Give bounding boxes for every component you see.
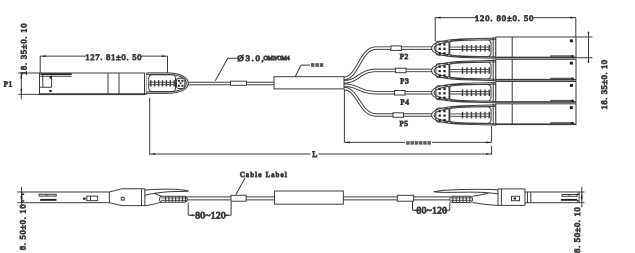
connector P2 (432, 37, 576, 58)
dimension 8.50 right (573, 187, 585, 253)
svg-text:80~120: 80~120 (195, 212, 226, 222)
cable marker P3 (396, 68, 407, 73)
cable label marker right (397, 195, 413, 201)
crimp ribs (149, 82, 176, 85)
wire fanout P2 (344, 48, 434, 78)
dimension 120.80 (435, 14, 576, 42)
bottom-left connector body (22, 192, 124, 203)
svg-text:8. 50±0. 10: 8. 50±0. 10 (19, 204, 28, 250)
svg-text:P2: P2 (400, 52, 409, 61)
svg-text:127. 81±0. 50: 127. 81±0. 50 (85, 53, 142, 62)
boot clover square (177, 78, 185, 88)
dimension 8.50 left (17, 187, 28, 250)
dimension 127.81 (40, 53, 167, 73)
dimension 18.35 right (576, 32, 609, 110)
cable label marker left (231, 195, 246, 201)
bottom-right connector pull tab (434, 189, 499, 194)
connector P4 (432, 82, 576, 103)
bottom-left connector pull tab (145, 189, 189, 195)
bottom-right connector crimp and funnel (450, 190, 498, 205)
cable label box (275, 191, 344, 204)
svg-text:L: L (312, 150, 317, 159)
bottom-left connector wide section (109, 189, 144, 206)
dimension 80~120 right (413, 201, 450, 216)
dimension branch length (CJK) (344, 89, 491, 145)
wire fanout P4 (344, 85, 434, 93)
svg-text:P5: P5 (400, 119, 409, 128)
svg-text:P3: P3 (400, 76, 409, 85)
cable marker P5 (393, 113, 404, 118)
boot crimp rect (149, 75, 176, 92)
connector P1 boot (146, 73, 188, 94)
connector P5 (432, 104, 576, 125)
dimension 80~120 left (188, 202, 231, 222)
svg-text:Ø3.0,: Ø3.0, (237, 53, 265, 63)
wire fanout P5 (344, 89, 434, 115)
splitter box (274, 77, 344, 89)
label Ø3.0 OM3/OM4 (215, 53, 289, 81)
connector P3 (432, 59, 576, 80)
dimension 18.35 left (18, 23, 39, 99)
svg-text:P4: P4 (401, 98, 410, 107)
wire bottom cable mid-left (246, 197, 274, 200)
svg-text:18. 35±0. 10: 18. 35±0. 10 (20, 23, 29, 75)
bottom-left connector funnel and crimp (145, 190, 187, 206)
svg-text:OM3/OM4: OM3/OM4 (264, 56, 290, 62)
wire fanout P3 (344, 70, 434, 81)
wire bottom cable right (414, 197, 450, 200)
dimension L (150, 98, 492, 159)
wire main cable (188, 82, 274, 85)
connector P1 blade bar (40, 74, 71, 77)
cable marker P4 (395, 91, 406, 96)
svg-text:8. 50±0. 10: 8. 50±0. 10 (573, 207, 582, 253)
wire bottom cable left (187, 197, 231, 200)
bottom-right connector wide section (498, 189, 525, 206)
svg-text:Cable Label: Cable Label (240, 171, 288, 179)
svg-text:P1: P1 (4, 80, 13, 89)
label Cable Label (236, 171, 288, 195)
cable marker M1 (231, 81, 247, 85)
connector P1 body (40, 73, 147, 95)
cable marker P2 (391, 46, 402, 51)
svg-text:120. 80±0. 50: 120. 80±0. 50 (475, 14, 534, 23)
label splitter box (CJK blobs) (295, 63, 323, 76)
wire bottom cable mid-right (343, 197, 397, 200)
svg-text:80~120: 80~120 (417, 207, 448, 217)
svg-text:18. 35±0. 10: 18. 35±0. 10 (600, 59, 609, 109)
connector P1 latch detail (40, 75, 52, 92)
bottom-right connector body (525, 192, 579, 203)
